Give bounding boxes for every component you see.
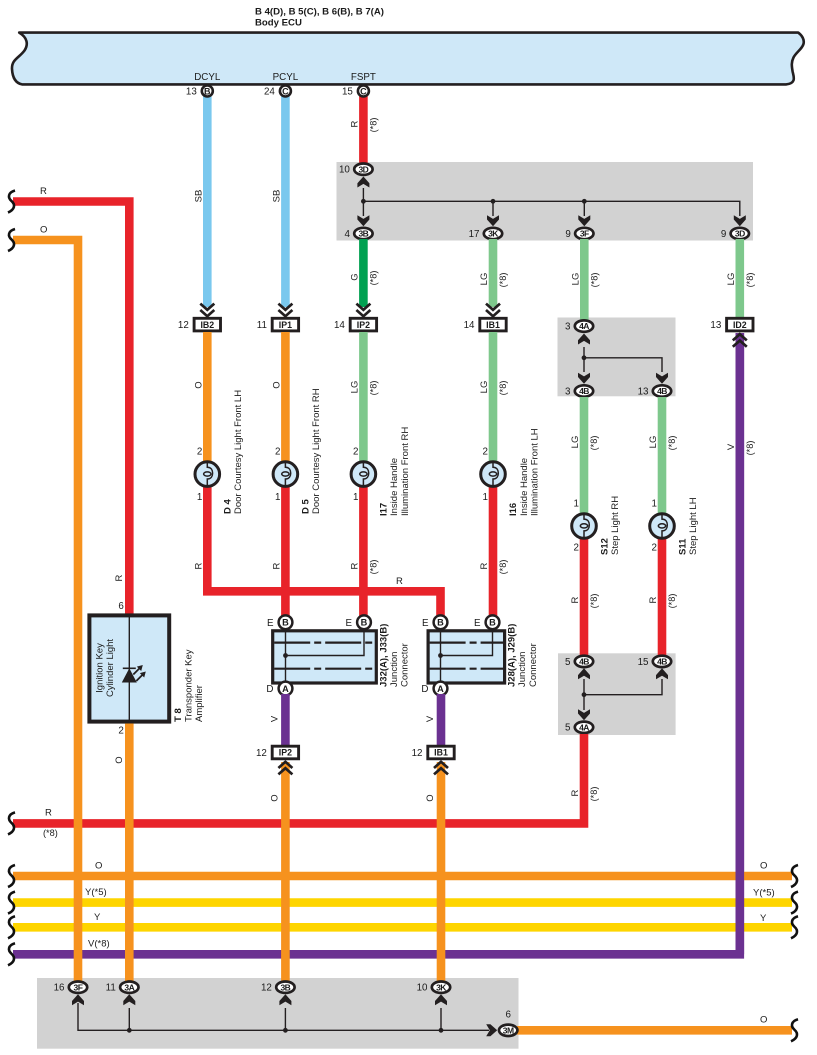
wire O (3M to right) <box>517 1026 792 1035</box>
label R (*8) <box>648 594 677 609</box>
svg-text:1: 1 <box>353 492 358 503</box>
junction line (bottom block) <box>78 1003 489 1030</box>
svg-text:O: O <box>760 861 767 872</box>
label SB <box>271 190 282 203</box>
svg-text:SB: SB <box>193 190 204 203</box>
connector 13 (B) DCYL <box>186 86 213 98</box>
wire SB (DCYL to IB2) <box>203 95 212 307</box>
connector 14 IP2 <box>334 318 377 331</box>
arrow into 4B left <box>578 668 590 679</box>
wire R (I17 to J32) <box>359 481 368 617</box>
node dot <box>127 1028 444 1033</box>
wire R (to T8) <box>13 202 129 617</box>
wire O bus <box>13 872 792 881</box>
label LG (*8) <box>570 273 599 288</box>
terminal D (A) of J32 <box>266 682 292 696</box>
arrow out of IP2 <box>278 762 292 775</box>
svg-text:R: R <box>648 596 659 603</box>
svg-text:Ignition KeyCylinder Light: Ignition KeyCylinder Light <box>95 639 116 697</box>
svg-text:12: 12 <box>261 983 272 994</box>
svg-text:E: E <box>345 618 352 629</box>
svg-text:A: A <box>282 684 289 694</box>
svg-text:SB: SB <box>271 190 282 203</box>
svg-text:13: 13 <box>710 320 721 331</box>
break O bottom right <box>791 1019 798 1041</box>
connector 12 (3B) <box>261 982 295 994</box>
svg-text:V: V <box>269 715 280 722</box>
junction connector J32/J33 box <box>273 630 377 684</box>
svg-text:V(*8): V(*8) <box>88 939 110 950</box>
break V(*8) left <box>8 943 15 965</box>
label LG (*8) <box>479 273 508 288</box>
label J32/J33 <box>379 624 411 687</box>
svg-text:4B: 4B <box>579 386 589 396</box>
connector 5 (4A) <box>565 722 593 734</box>
svg-text:(*8): (*8) <box>589 787 599 802</box>
break O left <box>8 865 15 887</box>
wire V (J32 to IP2) <box>281 694 290 746</box>
svg-text:B: B <box>489 618 496 628</box>
svg-text:DCYL: DCYL <box>194 72 221 83</box>
svg-text:O: O <box>193 381 204 388</box>
lamp I17 <box>351 462 376 487</box>
svg-text:3: 3 <box>565 322 571 333</box>
wire V (J28 to IB1) <box>437 694 446 746</box>
wire SB (PCYL to IP1) <box>281 95 290 307</box>
svg-text:3M: 3M <box>503 1025 514 1035</box>
svg-text:3A: 3A <box>124 982 134 992</box>
wire R (4A to left, *8) <box>13 734 584 823</box>
svg-text:D: D <box>421 684 428 695</box>
svg-text:1: 1 <box>275 492 280 503</box>
connector 15 (C) FSPT <box>342 86 369 98</box>
svg-text:3K: 3K <box>488 229 499 239</box>
svg-text:6: 6 <box>505 1010 511 1021</box>
Body ECU box <box>12 33 804 85</box>
svg-text:3K: 3K <box>436 982 447 992</box>
svg-text:B 4(D), B 5(C), B 6(B), B 7(A): B 4(D), B 5(C), B 6(B), B 7(A) <box>255 7 384 18</box>
svg-text:4A: 4A <box>579 321 589 331</box>
lamp S12 <box>572 514 597 539</box>
svg-text:B: B <box>437 618 444 628</box>
label R (*8) <box>349 118 378 133</box>
svg-text:B: B <box>282 618 289 628</box>
lamp I16 <box>481 462 506 487</box>
terminal D (A) of J28 <box>421 682 447 696</box>
label LG (*8) <box>479 381 508 396</box>
label R (*8) <box>570 594 599 609</box>
label LG (*8) <box>570 436 599 451</box>
svg-text:6: 6 <box>118 601 124 612</box>
svg-text:B: B <box>204 86 211 96</box>
wire R (S11 to 4B) <box>658 533 667 656</box>
svg-text:V: V <box>425 715 436 722</box>
connector 4 (3B) <box>344 228 372 240</box>
wire LG (3K to IB1) <box>489 239 498 307</box>
wire Y(*5) yellow bus <box>13 898 792 907</box>
svg-text:S12Step Light RH: S12Step Light RH <box>599 496 621 555</box>
svg-text:D 4Door Courtesy Light Front L: D 4Door Courtesy Light Front LH <box>223 390 245 514</box>
wire LG (3D to ID2) <box>735 239 744 318</box>
svg-text:O: O <box>269 794 280 801</box>
svg-text:2: 2 <box>275 447 280 458</box>
label V (*8) <box>726 441 755 456</box>
svg-text:S11Step Light LH: S11Step Light LH <box>677 497 699 555</box>
relay block shading (top) <box>337 162 754 241</box>
wire R (D4 to J28) <box>207 481 440 617</box>
svg-text:3B: 3B <box>280 982 290 992</box>
arrow into 4A <box>578 334 590 345</box>
node dot <box>361 199 587 204</box>
connector 16 (3F) <box>54 982 88 994</box>
wire O (IB1 to 3K) <box>437 762 446 982</box>
arrow into IP1 <box>278 304 292 317</box>
svg-text:4B: 4B <box>579 657 589 667</box>
lamp S11 <box>650 514 675 539</box>
label SB <box>193 190 204 203</box>
svg-text:Y(*5): Y(*5) <box>85 887 107 898</box>
svg-text:10: 10 <box>339 165 350 176</box>
label LG (*8) <box>349 381 378 396</box>
svg-text:2: 2 <box>574 543 579 554</box>
svg-text:R: R <box>114 574 125 581</box>
connector 10 (3D) <box>339 164 373 176</box>
lamp D5 <box>273 462 298 487</box>
arrow into 3F <box>578 215 590 226</box>
wire LG (IB1 to I16) <box>489 332 498 462</box>
svg-text:LG: LG <box>479 273 490 286</box>
connector 13 ID2 <box>710 318 753 331</box>
svg-text:I16Inside HandleIllumination F: I16Inside HandleIllumination Front LH <box>508 428 540 516</box>
wire V (ID2 to left, *8) top layer <box>13 333 740 954</box>
label O <box>193 381 204 388</box>
svg-text:3D: 3D <box>735 229 745 239</box>
break Y left <box>8 916 15 938</box>
break Y right <box>791 916 798 938</box>
svg-text:10: 10 <box>417 983 428 994</box>
svg-text:J32(A), J33(B)JunctionConnecto: J32(A), J33(B)JunctionConnector <box>379 624 411 687</box>
wire R (D5 to J32) <box>281 481 290 617</box>
svg-text:(*8): (*8) <box>589 594 599 609</box>
wire R (I16 to J28) <box>489 481 498 617</box>
svg-text:IP1: IP1 <box>279 320 292 330</box>
svg-text:R: R <box>349 562 360 569</box>
break Y(*5) left <box>8 892 15 914</box>
arrow into 3A bottom <box>123 994 135 1005</box>
junction line (lower 4B block) <box>584 679 662 710</box>
label D4 <box>223 390 245 514</box>
svg-text:3: 3 <box>565 386 571 397</box>
svg-text:LG: LG <box>648 436 659 449</box>
svg-text:D: D <box>266 684 273 695</box>
svg-text:R: R <box>349 120 360 127</box>
junction line (4A block) <box>584 347 662 372</box>
arrow into 3F bottom <box>72 994 84 1005</box>
svg-text:(*8): (*8) <box>589 436 599 451</box>
relay block shading (4A/4B upper) <box>558 318 676 397</box>
svg-text:IP2: IP2 <box>279 748 292 758</box>
svg-text:R: R <box>479 562 490 569</box>
label R (*8) <box>479 560 508 575</box>
svg-text:4B: 4B <box>657 657 667 667</box>
connector 11 IP1 <box>257 318 299 331</box>
arrow into 4B left <box>578 373 590 384</box>
svg-text:13: 13 <box>186 86 197 97</box>
break R(*8) left <box>8 812 15 834</box>
terminal E (B) of J33 <box>345 615 370 629</box>
svg-text:2: 2 <box>197 447 202 458</box>
svg-text:O: O <box>425 794 436 801</box>
svg-text:E: E <box>267 618 274 629</box>
arrow into 3K bottom <box>435 994 447 1005</box>
wire LG (4B to S12) <box>580 397 589 514</box>
connector 3 (4B) <box>565 385 593 397</box>
svg-text:12: 12 <box>178 320 189 331</box>
svg-text:(*8): (*8) <box>498 381 508 396</box>
connector 9 (3D) <box>721 228 749 240</box>
svg-text:24: 24 <box>264 86 275 97</box>
svg-text:G: G <box>349 273 360 280</box>
label G (*8) <box>349 271 378 286</box>
arrow into 3D right <box>734 215 746 226</box>
svg-text:LG: LG <box>479 381 490 394</box>
svg-text:2: 2 <box>483 447 488 458</box>
label S12 <box>599 496 621 555</box>
terminal E (B) of J28 <box>422 615 447 629</box>
svg-text:5: 5 <box>565 657 571 668</box>
svg-text:PCYL: PCYL <box>273 72 299 83</box>
svg-text:(*8): (*8) <box>745 273 755 288</box>
terminal E (B) of J29 <box>474 615 499 629</box>
svg-text:Body ECU: Body ECU <box>255 18 302 29</box>
connector 10 (3K) <box>417 982 451 994</box>
terminal E (B) of J32 <box>267 615 292 629</box>
svg-text:4B: 4B <box>657 386 667 396</box>
svg-text:I17Inside HandleIllumination F: I17Inside HandleIllumination Front RH <box>379 427 411 516</box>
arrow into IP2 <box>356 304 370 317</box>
svg-text:(*8): (*8) <box>498 560 508 575</box>
svg-text:IP2: IP2 <box>357 320 370 330</box>
label LG (*8) <box>648 436 677 451</box>
arrow into IB1 <box>486 304 500 317</box>
svg-text:D 5Door Courtesy Light Front R: D 5Door Courtesy Light Front RH <box>301 388 323 514</box>
arrow into 4A lower <box>578 709 590 720</box>
svg-text:1: 1 <box>197 492 202 503</box>
svg-text:1: 1 <box>652 499 657 510</box>
svg-text:R: R <box>396 576 403 587</box>
node dot <box>582 355 587 360</box>
svg-text:R: R <box>193 562 204 569</box>
wire O (left feed to 3F) <box>13 240 78 982</box>
svg-text:11: 11 <box>106 983 116 994</box>
svg-text:LG: LG <box>570 273 581 286</box>
connector 14 IB1 <box>464 318 507 331</box>
wire G (3B to IP2) <box>359 239 368 307</box>
svg-text:2: 2 <box>118 726 123 737</box>
lamp D4 <box>195 462 220 487</box>
svg-text:IB1: IB1 <box>486 320 500 330</box>
svg-text:R: R <box>271 562 282 569</box>
break O right <box>791 865 798 887</box>
wire Y yellow bus <box>13 923 792 932</box>
svg-text:(*8): (*8) <box>368 118 378 133</box>
connector 12 IB2 <box>178 318 221 331</box>
arrow into 3B <box>357 215 369 226</box>
svg-text:LG: LG <box>726 273 737 286</box>
svg-text:9: 9 <box>565 229 570 240</box>
svg-text:14: 14 <box>334 320 345 331</box>
LED symbol in T8 <box>122 665 146 683</box>
ignition key cylinder light T8 box <box>89 615 169 722</box>
arrow out of ID2 <box>733 334 747 347</box>
svg-text:IB2: IB2 <box>200 320 214 330</box>
svg-text:2: 2 <box>353 447 358 458</box>
svg-text:9: 9 <box>721 229 726 240</box>
svg-text:R: R <box>45 808 52 819</box>
svg-text:(*8): (*8) <box>745 441 755 456</box>
svg-text:O: O <box>760 1015 767 1026</box>
arrow into IB2 <box>200 304 214 317</box>
connector 15 (4B) <box>638 656 672 668</box>
svg-text:(*8): (*8) <box>368 271 378 286</box>
svg-text:3D: 3D <box>358 164 368 174</box>
svg-text:14: 14 <box>464 320 475 331</box>
svg-text:Y(*5): Y(*5) <box>753 888 775 899</box>
svg-text:B: B <box>361 618 368 628</box>
connector 5 (4B) <box>565 656 593 668</box>
arrow into 3M <box>486 1024 497 1036</box>
label O <box>271 381 282 388</box>
svg-text:ID2: ID2 <box>733 320 747 330</box>
connector 17 (3K) <box>469 228 503 240</box>
svg-text:4: 4 <box>344 229 350 240</box>
svg-text:3F: 3F <box>74 982 83 992</box>
svg-text:(*8): (*8) <box>498 273 508 288</box>
svg-text:(*8): (*8) <box>43 828 58 838</box>
svg-text:C: C <box>282 86 289 96</box>
label R (*8) vertical <box>570 787 599 802</box>
wire LG (4B to S11) <box>658 397 667 514</box>
svg-text:12: 12 <box>412 748 423 759</box>
arrow out of IB1 <box>434 762 448 775</box>
arrow into 4B right <box>656 668 668 679</box>
svg-text:11: 11 <box>257 320 267 331</box>
connector 24 (C) PCYL <box>264 86 291 98</box>
wire O (IP1 to D5) <box>281 332 290 462</box>
svg-text:LG: LG <box>349 381 360 394</box>
label S11 <box>677 497 699 555</box>
label J28/J29 <box>507 624 539 687</box>
label Ignition Key Cylinder Light <box>95 639 116 697</box>
svg-text:C: C <box>360 86 367 96</box>
break O top left <box>8 229 15 251</box>
connector 13 (4B) <box>638 385 672 397</box>
connector 12 IB1 <box>412 746 455 759</box>
svg-text:16: 16 <box>54 983 65 994</box>
svg-text:R: R <box>40 186 47 197</box>
svg-text:(*8): (*8) <box>368 381 378 396</box>
label R <box>271 562 282 569</box>
wire O (T8 to 3A) <box>125 724 134 983</box>
svg-text:3F: 3F <box>580 229 589 239</box>
connector 6 (3M) <box>499 1010 517 1037</box>
svg-text:A: A <box>437 684 444 694</box>
svg-text:J28(A), J29(B)JunctionConnecto: J28(A), J29(B)JunctionConnector <box>507 624 539 687</box>
svg-text:15: 15 <box>638 657 649 668</box>
svg-text:(*8): (*8) <box>667 436 677 451</box>
svg-text:13: 13 <box>638 386 649 397</box>
svg-text:2: 2 <box>652 543 657 554</box>
label T8 <box>173 649 205 722</box>
wire O (IB2 to D4) <box>203 332 212 462</box>
arrow into 3D <box>357 177 369 188</box>
label I17 <box>379 427 411 516</box>
svg-text:5: 5 <box>565 723 571 734</box>
connector 9 (3F) <box>565 228 593 240</box>
svg-text:Y: Y <box>760 913 767 924</box>
label R <box>193 562 204 569</box>
wire LG (3F to 4A) <box>580 239 589 321</box>
label LG (*8) <box>726 273 755 288</box>
wire R (S12 to 4B) <box>580 533 589 656</box>
svg-text:E: E <box>422 618 429 629</box>
junction connector J28/J29 box <box>428 630 505 684</box>
svg-text:V: V <box>726 443 737 450</box>
relay block shading (bottom) <box>37 978 519 1049</box>
break Y(*5) right <box>791 892 798 914</box>
label I16 <box>508 428 540 516</box>
svg-text:(*8): (*8) <box>589 273 599 288</box>
node dot <box>582 692 587 697</box>
break R top left <box>8 191 15 213</box>
svg-text:T 8Transponder KeyAmplifier: T 8Transponder KeyAmplifier <box>173 649 205 722</box>
connector 11 (3A) <box>106 982 139 994</box>
label D5 <box>301 388 323 514</box>
svg-text:1: 1 <box>483 492 488 503</box>
svg-text:3B: 3B <box>358 229 368 239</box>
svg-text:17: 17 <box>469 229 480 240</box>
Body ECU title <box>255 7 384 29</box>
relay block shading (4B/4A lower) <box>558 653 676 735</box>
svg-text:1: 1 <box>574 499 579 510</box>
svg-text:O: O <box>40 225 47 236</box>
wire V (ID2 down to V bus) <box>735 333 744 954</box>
svg-text:R: R <box>570 789 581 796</box>
svg-text:(*8): (*8) <box>667 594 677 609</box>
wire LG (IP2 to I17) <box>359 332 368 462</box>
svg-text:Y: Y <box>94 912 101 923</box>
svg-text:O: O <box>95 861 102 872</box>
svg-text:FSPT: FSPT <box>351 72 376 83</box>
svg-text:IB1: IB1 <box>434 748 448 758</box>
arrow into 3B bottom <box>279 994 291 1005</box>
arrow into 4B right <box>656 373 668 384</box>
connector 12 IP2 <box>256 746 299 759</box>
svg-text:O: O <box>271 381 282 388</box>
wire O (IP2 to 3B) <box>281 762 290 982</box>
svg-text:LG: LG <box>570 436 581 449</box>
arrow into 3K <box>487 215 499 226</box>
label R (*8) <box>349 560 378 575</box>
connector 3 (4A) <box>565 320 593 332</box>
junction line (top block) <box>363 188 739 216</box>
svg-text:15: 15 <box>342 86 353 97</box>
wire R (FSPT to 3D) <box>359 95 368 164</box>
svg-text:O: O <box>114 756 125 763</box>
svg-text:R: R <box>570 596 581 603</box>
svg-text:E: E <box>474 618 481 629</box>
svg-text:4A: 4A <box>579 722 589 732</box>
